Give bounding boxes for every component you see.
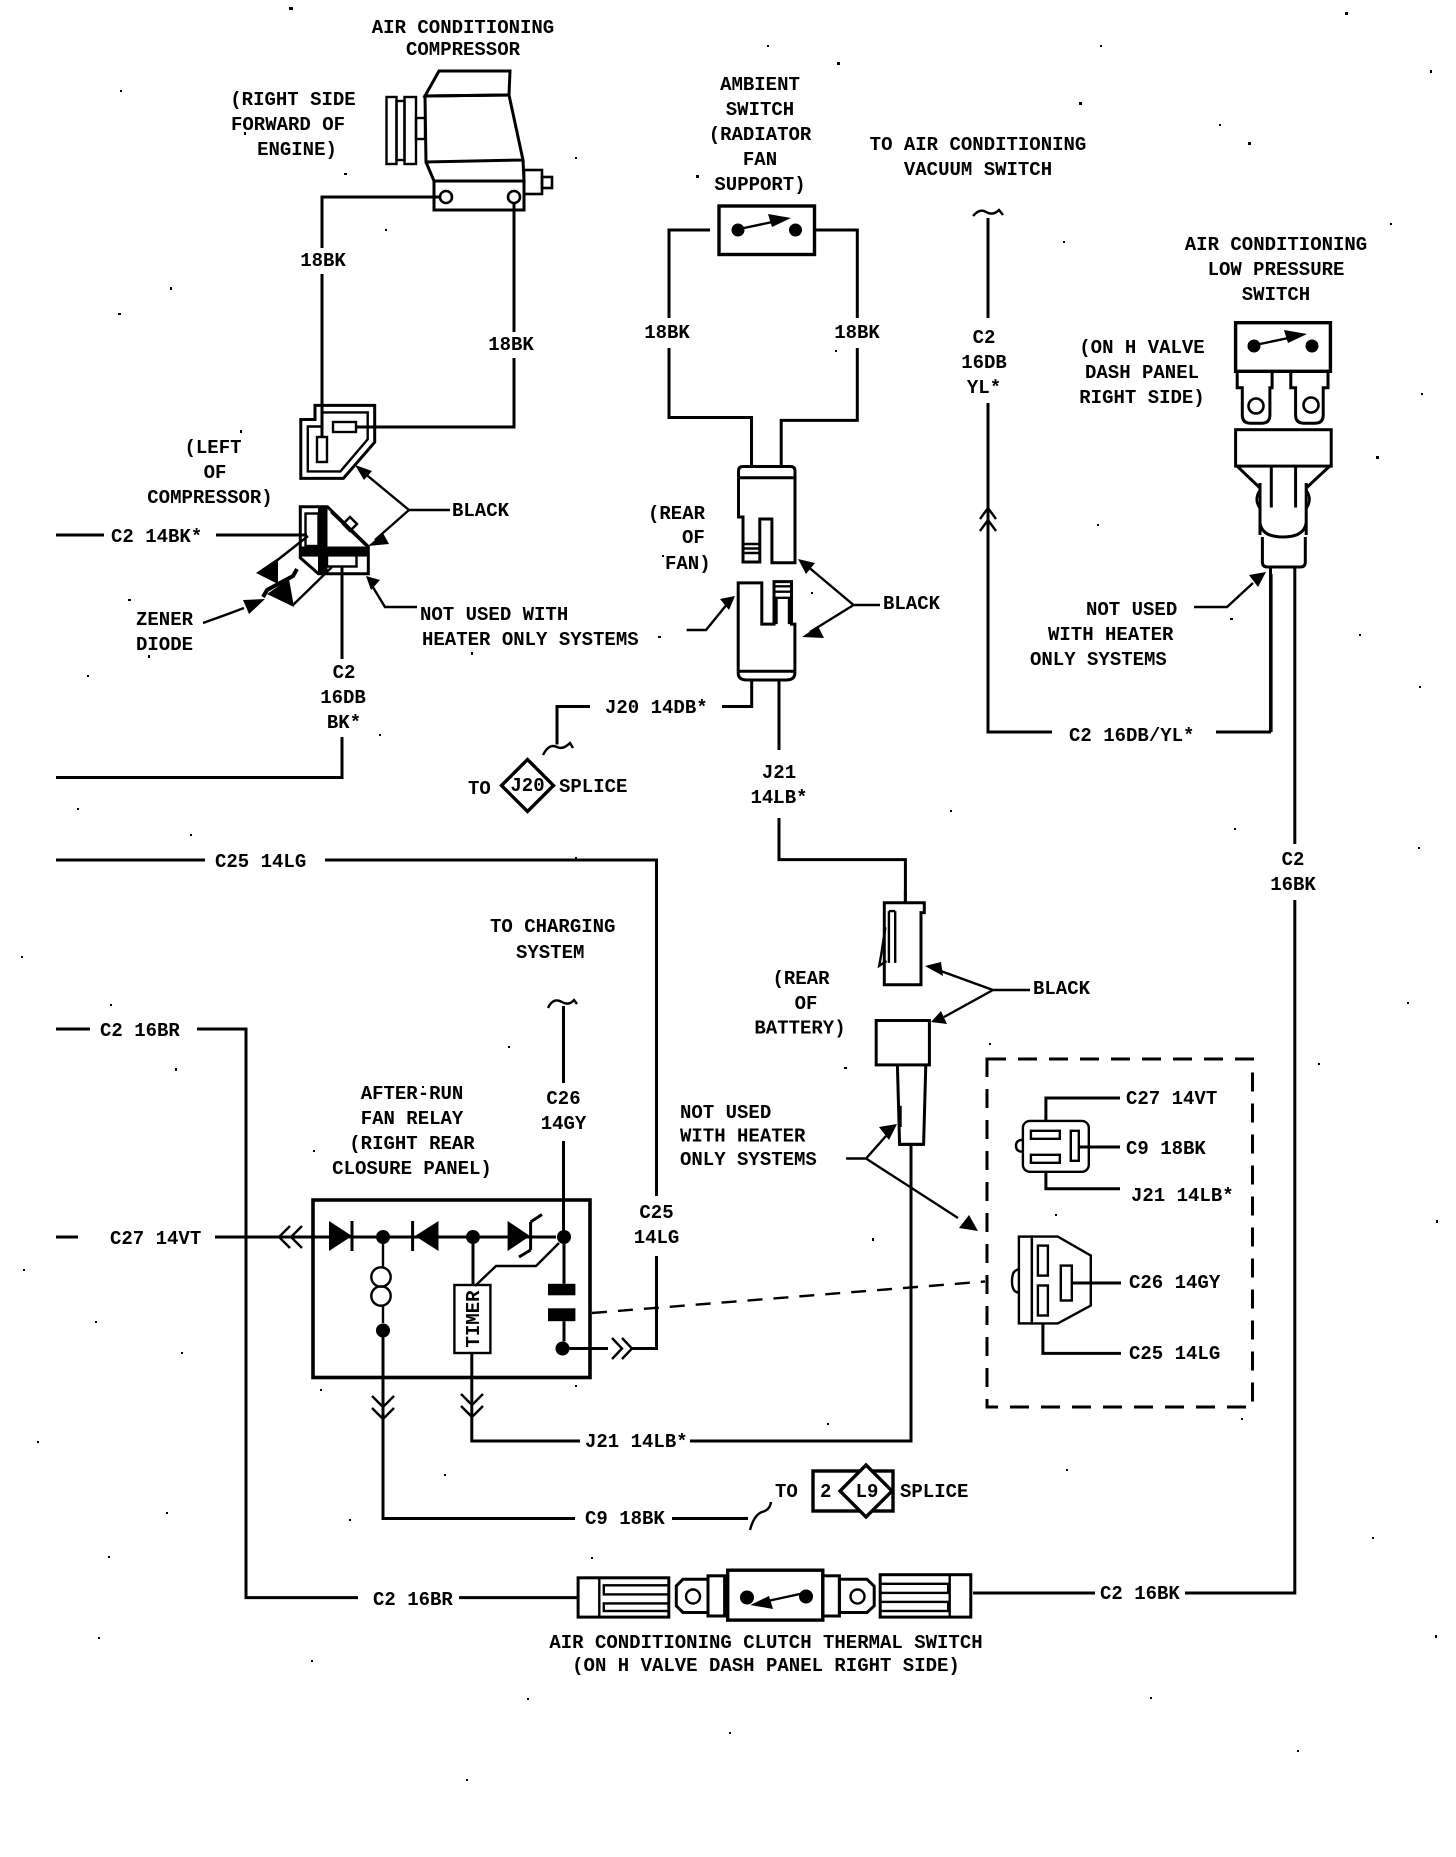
svg-text:SWITCH: SWITCH — [726, 99, 794, 121]
svg-text:NOT USED: NOT USED — [1086, 599, 1177, 621]
double chevron on vacuum switch wire — [980, 508, 996, 531]
wire C2 16DB BK* down from connector — [56, 566, 342, 778]
svg-text:ONLY SYSTEMS: ONLY SYSTEMS — [680, 1149, 817, 1171]
after-run fan relay box — [313, 1200, 590, 1378]
zener diode label and arrow — [136, 609, 194, 656]
svg-text:DASH PANEL: DASH PANEL — [1085, 362, 1199, 384]
svg-text:C26: C26 — [546, 1088, 580, 1110]
low pressure switch terminals — [1237, 371, 1328, 423]
fan connector lower half — [738, 582, 795, 680]
svg-text:OF: OF — [795, 993, 818, 1015]
svg-text:BK*: BK* — [327, 712, 361, 734]
battery connector lower half — [876, 1021, 929, 1145]
diode D1 — [329, 1221, 352, 1251]
svg-text:ENGINE): ENGINE) — [257, 139, 337, 161]
thermal switch body — [728, 1570, 823, 1620]
svg-text:SWITCH: SWITCH — [1242, 284, 1310, 306]
connector terminal slots — [306, 514, 319, 547]
ghost connector lower — [1012, 1237, 1091, 1324]
connector inner shell — [308, 412, 368, 471]
wire C9 18BK with splice lead — [672, 1517, 748, 1520]
air conditioning compressor label — [372, 17, 554, 61]
to charging system note — [490, 916, 615, 964]
svg-text:CLOSURE PANEL): CLOSURE PANEL) — [332, 1158, 492, 1180]
coil output wire with chevron — [383, 1338, 575, 1519]
thermal switch left middle piece — [676, 1576, 724, 1616]
svg-text:FAN RELAY: FAN RELAY — [361, 1108, 464, 1130]
ghost connector upper — [1016, 1121, 1089, 1172]
low pressure switch connector body — [1236, 430, 1332, 844]
svg-text:TO: TO — [468, 778, 491, 800]
wire C2 16BK from low pressure switch — [973, 900, 1295, 1593]
svg-text:J21 14LB*: J21 14LB* — [1131, 1185, 1234, 1207]
svg-text:TIMER: TIMER — [463, 1290, 485, 1348]
svg-text:RIGHT SIDE): RIGHT SIDE) — [1079, 387, 1204, 409]
svg-text:J20: J20 — [510, 775, 544, 797]
zener diode across terminals — [266, 536, 333, 605]
wire J21 14LB* to battery connector — [690, 1144, 911, 1441]
svg-text:SPLICE: SPLICE — [900, 1481, 968, 1503]
svg-text:14LB*: 14LB* — [750, 787, 807, 809]
dashed harness box — [987, 1059, 1253, 1407]
svg-text:L9: L9 — [856, 1481, 879, 1503]
wire C27 14VT with chevron — [56, 1236, 313, 1239]
connector (left of compressor) outer shell — [301, 405, 375, 478]
wire from ambient switch left side — [669, 230, 752, 467]
location note (rear of battery) — [754, 968, 845, 1040]
svg-text:BLACK: BLACK — [452, 500, 510, 522]
low pressure switch body — [1236, 323, 1331, 372]
svg-text:(REAR: (REAR — [772, 968, 830, 990]
svg-text:WITH HEATER: WITH HEATER — [680, 1126, 806, 1148]
compressor body drawing — [425, 71, 552, 210]
svg-text:BATTERY): BATTERY) — [754, 1018, 845, 1040]
svg-text:DIODE: DIODE — [136, 634, 193, 656]
ambient switch label — [709, 74, 812, 196]
location note (left of compressor) — [147, 437, 272, 509]
capacitor — [563, 1244, 566, 1341]
svg-text:J21 14LB*: J21 14LB* — [585, 1431, 688, 1453]
svg-text:2: 2 — [820, 1481, 831, 1503]
svg-text:C9 18BK: C9 18BK — [1126, 1138, 1206, 1160]
wire J21 14LB* down from fan connector — [779, 680, 905, 903]
svg-text:16BK: 16BK — [1270, 874, 1316, 896]
svg-text:AMBIENT: AMBIENT — [720, 74, 800, 96]
svg-text:C2 14BK*: C2 14BK* — [111, 526, 202, 548]
fan connector upper half — [739, 467, 796, 563]
timer output wire with chevron — [472, 1353, 580, 1441]
svg-text:C27 14VT: C27 14VT — [1126, 1088, 1217, 1110]
svg-text:C2 16DB/YL*: C2 16DB/YL* — [1069, 725, 1194, 747]
svg-text:NOT USED: NOT USED — [680, 1102, 771, 1124]
wire C25 14LG across left — [56, 860, 657, 1349]
diode D2 — [411, 1221, 414, 1251]
connector terminal slots — [333, 422, 356, 432]
svg-text:C2: C2 — [973, 327, 996, 349]
svg-text:WITH HEATER: WITH HEATER — [1048, 624, 1174, 646]
svg-text:14GY: 14GY — [541, 1113, 587, 1135]
thermal switch caption — [549, 1632, 982, 1677]
svg-text:ONLY SYSTEMS: ONLY SYSTEMS — [1030, 649, 1167, 671]
svg-text:FAN: FAN — [743, 149, 777, 171]
svg-text:C2 16BK: C2 16BK — [1100, 1583, 1180, 1605]
svg-text:C9 18BK: C9 18BK — [585, 1508, 665, 1530]
svg-text:(RIGHT SIDE: (RIGHT SIDE — [230, 89, 355, 111]
svg-text:18BK: 18BK — [644, 322, 690, 344]
svg-text:16DB: 16DB — [961, 352, 1007, 374]
not used with heater note (battery area) — [680, 1102, 817, 1171]
svg-text:16DB: 16DB — [320, 687, 366, 709]
svg-text:(ON H VALVE DASH PANEL RIGHT S: (ON H VALVE DASH PANEL RIGHT SIDE) — [572, 1655, 960, 1677]
wire C2 14BK* — [56, 534, 307, 537]
svg-text:AFTER-RUN: AFTER-RUN — [361, 1083, 464, 1105]
wire and label J20 14DB* with splice lead — [557, 680, 752, 745]
svg-text:SPLICE: SPLICE — [559, 776, 627, 798]
junction dot — [376, 1324, 390, 1338]
svg-text:C2: C2 — [1282, 849, 1305, 871]
arrow into lower fan connector — [687, 603, 728, 630]
svg-text:C25: C25 — [639, 1202, 673, 1224]
ghost connector upper leads and labels — [1046, 1098, 1120, 1121]
location note (right side forward of engine) — [230, 89, 355, 161]
svg-text:J21: J21 — [762, 762, 796, 784]
svg-text:TO AIR CONDITIONING: TO AIR CONDITIONING — [870, 134, 1087, 156]
battery connector upper half — [879, 890, 924, 985]
connector internal divider cross — [318, 507, 328, 574]
svg-text:C2: C2 — [333, 662, 356, 684]
svg-text:FORWARD OF: FORWARD OF — [231, 114, 345, 136]
svg-text:(ON H VALVE: (ON H VALVE — [1079, 337, 1204, 359]
svg-text:18BK: 18BK — [300, 250, 346, 272]
svg-text:J20 14DB*: J20 14DB* — [605, 697, 708, 719]
thermal switch right connector — [880, 1575, 971, 1617]
svg-text:AIR CONDITIONING: AIR CONDITIONING — [1185, 234, 1367, 256]
svg-text:NOT USED WITH: NOT USED WITH — [420, 604, 568, 626]
svg-text:LOW PRESSURE: LOW PRESSURE — [1208, 259, 1345, 281]
svg-text:YL*: YL* — [967, 377, 1001, 399]
svg-text:TO CHARGING: TO CHARGING — [490, 916, 615, 938]
air conditioning low pressure switch label — [1185, 234, 1367, 306]
to air conditioning vacuum switch note — [870, 134, 1087, 181]
wire 18BK from compressor right bolt — [356, 204, 514, 427]
location note (on h valve dash panel right side) — [1079, 337, 1204, 409]
thermal switch right middle piece — [823, 1576, 874, 1616]
svg-text:(REAR: (REAR — [648, 503, 706, 525]
wire 18BK from compressor left bolt — [322, 197, 440, 437]
svg-text:C2 16BR: C2 16BR — [100, 1020, 180, 1042]
svg-text:HEATER ONLY SYSTEMS: HEATER ONLY SYSTEMS — [422, 629, 639, 651]
junction dot — [376, 1230, 390, 1244]
chevron out to C25 wire — [612, 1338, 632, 1359]
svg-text:(LEFT: (LEFT — [184, 437, 241, 459]
connector with zener diode - body — [300, 507, 368, 574]
svg-text:14LG: 14LG — [634, 1227, 680, 1249]
svg-text:OF: OF — [204, 462, 227, 484]
diode D3 zener — [508, 1221, 530, 1251]
not used with heater note and arrow (low pressure switch) — [1030, 599, 1177, 671]
timer feed wire — [472, 1244, 475, 1285]
svg-text:SUPPORT): SUPPORT) — [714, 174, 805, 196]
svg-text:BLACK: BLACK — [1033, 978, 1091, 1000]
ghost connector lower leads and labels — [1072, 1282, 1121, 1285]
wire C2 16BR left — [56, 1029, 578, 1598]
svg-text:COMPRESSOR): COMPRESSOR) — [147, 487, 272, 509]
thermal switch left connector — [578, 1578, 669, 1617]
svg-text:AIR CONDITIONING: AIR CONDITIONING — [372, 17, 554, 39]
label C25 14LG on vertical wire — [634, 1202, 680, 1249]
svg-text:18BK: 18BK — [834, 322, 880, 344]
svg-text:OF: OF — [682, 527, 705, 549]
junction dot — [557, 1230, 571, 1244]
wire C26 14GY to charging system — [548, 1000, 577, 1008]
wire from ambient switch right side — [781, 230, 857, 467]
zener control line to timer — [475, 1243, 559, 1286]
svg-text:C26 14GY: C26 14GY — [1129, 1272, 1221, 1294]
junction dot — [556, 1342, 570, 1356]
svg-text:(RIGHT REAR: (RIGHT REAR — [349, 1133, 475, 1155]
dashed link from relay to harness box — [592, 1282, 985, 1314]
svg-text:C27 14VT: C27 14VT — [110, 1228, 201, 1250]
svg-text:AIR CONDITIONING CLUTCH THERMA: AIR CONDITIONING CLUTCH THERMAL SWITCH — [549, 1632, 982, 1654]
not used with heater note and arrow — [420, 604, 639, 651]
svg-text:C2 16BR: C2 16BR — [373, 1589, 453, 1611]
svg-text:VACUUM SWITCH: VACUUM SWITCH — [904, 159, 1052, 181]
after-run fan relay label — [332, 1083, 492, 1180]
svg-text:TO: TO — [775, 1481, 798, 1503]
compressor pulley — [387, 97, 426, 164]
svg-text:FAN): FAN) — [665, 553, 711, 575]
svg-text:SYSTEM: SYSTEM — [516, 942, 584, 964]
svg-text:ZENER: ZENER — [136, 609, 194, 631]
ambient switch box — [719, 206, 815, 255]
timer box — [454, 1285, 490, 1353]
svg-text:COMPRESSOR: COMPRESSOR — [406, 39, 521, 61]
svg-text:C25 14LG: C25 14LG — [215, 851, 306, 873]
svg-text:18BK: 18BK — [488, 334, 534, 356]
svg-text:C25 14LG: C25 14LG — [1129, 1343, 1220, 1365]
svg-text:BLACK: BLACK — [883, 593, 941, 615]
junction dot — [466, 1230, 480, 1244]
relay internal bus wire — [313, 1236, 556, 1239]
location note (rear of fan) — [648, 503, 711, 575]
wire C2 16DB YL* to vacuum switch — [973, 210, 1003, 216]
arrows from note to battery connector and ghost box — [846, 1136, 886, 1159]
relay coil — [382, 1244, 384, 1323]
svg-text:(RADIATOR: (RADIATOR — [709, 124, 812, 146]
